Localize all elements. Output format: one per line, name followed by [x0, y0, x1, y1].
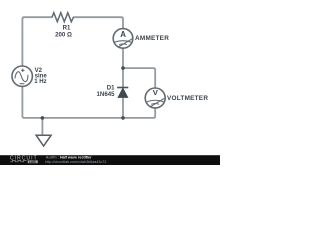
plus sign — [21, 69, 24, 72]
CircuitLab logo: LAB box — [28, 160, 38, 163]
wire resistor right to top-right corner down to ammeter — [74, 17, 124, 28]
wire junction A to diode cathode — [122, 68, 124, 87]
minus sign — [20, 83, 25, 85]
wire voltmeter bottom to bottom rail right corner — [123, 108, 155, 118]
svg-text:A: A — [120, 30, 126, 39]
resistor R1 — [52, 13, 74, 22]
footer bar — [0, 155, 220, 165]
svg-text:200 Ω: 200 Ω — [55, 32, 72, 39]
svg-text:VOLTMETER: VOLTMETER — [167, 95, 208, 102]
svg-text:1 Hz: 1 Hz — [34, 78, 47, 85]
wire top-left corner and top run to resistor — [22, 17, 52, 66]
wire diode anode to bottom rail — [122, 97, 124, 118]
ground — [36, 135, 51, 146]
bottom rail junction dot at diode — [121, 116, 125, 120]
sine glyph — [15, 72, 28, 82]
wire junction A right and down to voltmeter top — [123, 68, 155, 88]
wire ammeter bottom to junction A — [122, 48, 124, 68]
diode D1 — [117, 88, 128, 98]
ammeter (AMMETER) — [113, 29, 133, 49]
wire source bottom to bottom-left corner and rail to diode — [22, 86, 123, 118]
svg-text:LAB: LAB — [29, 160, 37, 164]
svg-text:AMMETER: AMMETER — [135, 35, 169, 42]
svg-text:V: V — [153, 88, 159, 97]
svg-text:http://circuitlab.com/c4ah3b6a: http://circuitlab.com/c4ah3b6aa43c72 — [45, 160, 106, 164]
svg-text:Aurfin : Half wave rectifier: Aurfin : Half wave rectifier — [46, 156, 92, 160]
svg-text:1N645: 1N645 — [97, 91, 116, 98]
voltmeter (VOLTMETER) — [145, 88, 165, 108]
CircuitLab logo: waveform trace — [10, 160, 26, 161]
voltage source V2 — [12, 66, 32, 86]
ground junction dot — [41, 116, 45, 120]
node A junction dot — [121, 66, 125, 70]
wire ground stem — [41, 118, 43, 135]
